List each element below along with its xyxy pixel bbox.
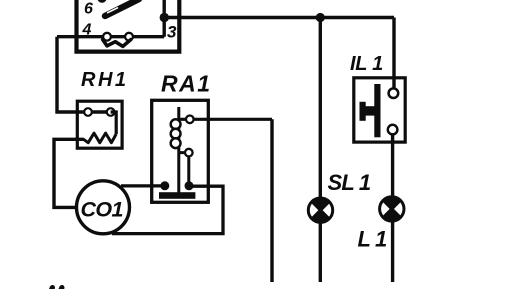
svg-text:IL 1: IL 1 xyxy=(350,53,383,75)
wire: top bus xyxy=(164,16,394,20)
RH1 contact circle right xyxy=(107,108,115,116)
relay RA1 coil core wire xyxy=(177,107,180,193)
wire: IL1 bottom terminal down to L1 xyxy=(391,130,394,282)
relay RA1 bottom terminal xyxy=(185,149,193,157)
relay RA1 armature bar xyxy=(159,192,195,199)
relay RA1 top terminal xyxy=(186,116,194,124)
lamp SL1 xyxy=(308,198,332,222)
RH1 contact bar xyxy=(88,110,111,113)
svg-text:RA1: RA1 xyxy=(161,70,212,96)
wire: relay right contact to CO1 bottom xyxy=(112,186,223,233)
RH1 contact circle left xyxy=(84,108,92,116)
svg-text:CO1: CO1 xyxy=(81,198,123,222)
wire: pin4 down to RH1 contacts xyxy=(57,37,87,112)
wire: RH1 resistor to CO1 xyxy=(54,139,84,207)
wire: CO1 to relay left contact xyxy=(121,184,165,187)
relay RA1 coil loop 2 xyxy=(171,129,181,139)
wire: RH1 contact to resistor xyxy=(111,112,117,134)
svg-text:RH1: RH1 xyxy=(81,69,129,91)
wire: right branch down to bottom edge xyxy=(270,119,273,282)
svg-text:SL 1: SL 1 xyxy=(328,170,371,195)
lamp L1 xyxy=(380,197,404,221)
wire: coil bottom link xyxy=(179,153,189,186)
switch SA1 fixed contact right xyxy=(125,33,133,41)
wire: SL1 branch xyxy=(319,18,322,283)
relay RA1 contact dot left xyxy=(160,181,169,190)
switch SA1 lever xyxy=(105,0,139,16)
caption fragment (cut letters at bottom edge) xyxy=(51,288,62,289)
switch SA1 body (box, cut off at top) xyxy=(77,0,180,52)
resistor element in RH1 xyxy=(83,133,116,143)
svg-text:6: 6 xyxy=(84,1,93,18)
svg-text:3: 3 xyxy=(167,23,177,42)
motor CO1 xyxy=(77,181,130,234)
switch SA1 fixed contact left xyxy=(103,33,111,41)
switch SA1 pivot contact (cut at top edge) xyxy=(97,0,106,3)
wire: contact row of switch (pin4 to pin3 riser) xyxy=(57,35,164,38)
relay RA1 coil loop 1 xyxy=(171,119,181,129)
pushbutton IL1 bottom terminal xyxy=(388,125,398,135)
relay RA1 coil loop 3 xyxy=(171,138,181,148)
node: junction dot SL1 branch xyxy=(316,13,325,22)
pushbutton IL1 top terminal xyxy=(389,88,399,98)
wire: pin3 riser to top edge xyxy=(162,0,165,37)
switch SA1 movable bridge xyxy=(103,40,131,47)
wire: drop to IL1 xyxy=(392,18,395,94)
relay RA1 box xyxy=(152,100,209,202)
relay RA1 contact dot right xyxy=(185,181,194,190)
svg-text:L 1: L 1 xyxy=(358,226,388,251)
node: junction dot on pin3 riser xyxy=(160,13,169,22)
pushbutton IL1 box xyxy=(354,78,405,142)
pushbutton IL1 plunger stem xyxy=(361,106,374,115)
resistor unit RH1 box xyxy=(77,101,122,148)
pushbutton IL1 plunger cap xyxy=(360,102,366,121)
pushbutton IL1 contact bar xyxy=(374,84,380,137)
wire: relay coil top to right branch corner xyxy=(179,118,272,121)
